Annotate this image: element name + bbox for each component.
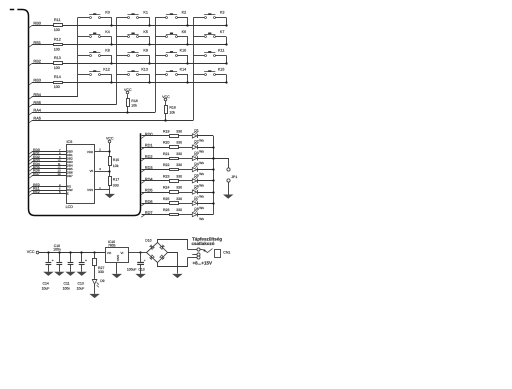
svg-text:DB7: DB7 [67, 174, 73, 178]
wire (AC top) [158, 240, 188, 250]
wire button drop [226, 74, 228, 82]
svg-text:K7: K7 [220, 30, 225, 34]
junction [110, 62, 112, 64]
svg-text:R17: R17 [113, 178, 119, 182]
pin 1 (VSS) [95, 186, 110, 190]
junction [110, 24, 112, 26]
svg-text:Ws: Ws [199, 183, 204, 187]
svg-text:Ws: Ws [199, 161, 204, 165]
pushbutton K0 [78, 11, 112, 19]
capacitor C11 100n [68, 252, 74, 272]
wire button drop [226, 17, 228, 25]
svg-text:R25: R25 [163, 197, 169, 201]
svg-text:D1: D1 [194, 128, 198, 132]
LED D2 Ws [192, 140, 204, 154]
svg-text:D3: D3 [194, 151, 198, 155]
wire button drop [226, 37, 228, 45]
net RE2 (LCD control wire) [29, 190, 66, 196]
svg-text:RA5: RA5 [33, 116, 41, 121]
junction [110, 81, 112, 83]
wire R18 to RA4 [127, 107, 129, 113]
jumper JP1 [227, 168, 237, 182]
junction [225, 81, 227, 83]
junction [93, 251, 95, 253]
wire [178, 192, 192, 194]
svg-text:330: 330 [176, 163, 182, 167]
supply VCC (for R18) [124, 88, 132, 99]
net RD6 (LCD data wire) [29, 169, 66, 175]
wire column vertical [155, 17, 157, 112]
wire button drop [149, 17, 151, 25]
LED D1 Ws [192, 128, 204, 142]
svg-text:D10: D10 [145, 239, 151, 243]
svg-text:R12: R12 [54, 37, 61, 41]
wire [197, 203, 213, 205]
net RD1 (LCD data wire) [29, 151, 66, 157]
net RD6 (LED wire) [141, 199, 169, 206]
wire button drop [111, 37, 113, 45]
svg-text:100n: 100n [53, 248, 61, 252]
svg-text:csatlakozó: csatlakozó [192, 241, 215, 246]
LED D3 Ws [192, 151, 204, 165]
svg-text:10uF: 10uF [77, 287, 85, 291]
ground [43, 272, 53, 276]
pushbutton K1 [117, 11, 150, 19]
svg-text:D8: D8 [194, 207, 198, 211]
label C13 10uF [77, 281, 85, 290]
svg-text:100uF: 100uF [127, 268, 137, 272]
wire [94, 284, 96, 294]
wire button drop [111, 55, 113, 63]
resistor R21 330 [163, 152, 182, 160]
wire R16 to RA5 [165, 113, 167, 120]
svg-text:D7: D7 [194, 196, 198, 200]
resistor R13 100 [54, 56, 63, 70]
junction [148, 81, 150, 83]
junction [148, 43, 150, 45]
resistor R22 330 [163, 163, 182, 170]
wire [178, 214, 192, 216]
junction [148, 62, 150, 64]
wire to jumper [214, 159, 229, 168]
svg-text:VO: VO [107, 251, 112, 255]
svg-text:V0: V0 [90, 169, 94, 173]
net RB2 (row wire) [29, 59, 54, 66]
svg-text:330: 330 [176, 174, 182, 178]
svg-text:330: 330 [176, 186, 182, 190]
svg-text:10k: 10k [169, 110, 175, 114]
svg-text:R18: R18 [131, 99, 137, 103]
pushbutton K9 [117, 49, 150, 57]
resistor R26 330 [163, 208, 182, 215]
svg-text:+: + [52, 259, 54, 263]
ground (bridge) [172, 274, 182, 278]
wire button drop [149, 37, 151, 45]
svg-text:Ws: Ws [199, 195, 204, 199]
junction [148, 24, 150, 26]
svg-text:R23: R23 [163, 174, 169, 178]
pushbutton K11 [193, 49, 226, 57]
svg-text:D2: D2 [194, 140, 198, 144]
ground (LCD) [105, 194, 115, 198]
resistor R19 330 [163, 130, 182, 138]
wire row [63, 44, 227, 46]
pushbutton K6 [155, 30, 188, 38]
wire button drop [149, 74, 151, 82]
ground (JP1) [223, 195, 233, 199]
supply VCC (for R16) [162, 95, 170, 106]
svg-text:10k: 10k [113, 164, 119, 168]
svg-text:RB2: RB2 [33, 59, 41, 64]
wire button drop [226, 55, 228, 63]
capacitor C10 100n [56, 252, 62, 272]
bridge rectifier D10 [145, 239, 167, 263]
ground [77, 272, 87, 276]
svg-text:K4: K4 [105, 30, 110, 34]
wire [178, 169, 192, 171]
svg-text:E: E [67, 191, 69, 195]
junction [225, 24, 227, 26]
svg-text:RD4: RD4 [145, 176, 154, 181]
svg-text:100: 100 [54, 28, 60, 32]
svg-text:VCC: VCC [106, 136, 114, 140]
net RB4 (column wire) [29, 92, 78, 99]
svg-text:+: + [144, 259, 146, 263]
svg-text:R16: R16 [169, 106, 175, 110]
svg-text:RB1: RB1 [33, 40, 41, 45]
capacitor C10 100n label [53, 244, 61, 252]
wire button drop [187, 17, 189, 25]
wire (7805 gnd) [116, 263, 118, 274]
wire button drop [187, 74, 189, 82]
svg-text:K14: K14 [180, 68, 187, 72]
net RD4 (LED wire) [141, 176, 169, 183]
pushbutton K10 [155, 49, 188, 57]
svg-text:K2: K2 [182, 11, 187, 15]
junction [164, 119, 166, 121]
net RD5 (LED wire) [141, 188, 169, 195]
svg-text:K12: K12 [103, 68, 110, 72]
net RD2 (LED wire) [141, 154, 169, 161]
svg-text:+8...+15V: +8...+15V [193, 260, 213, 265]
svg-text:CN1: CN1 [223, 251, 230, 255]
svg-text:RD5: RD5 [145, 188, 153, 193]
svg-text:R22: R22 [163, 163, 169, 167]
junction [186, 81, 188, 83]
svg-text:10k: 10k [131, 104, 137, 108]
LED D6 Ws [192, 185, 204, 199]
svg-text:RB0: RB0 [33, 21, 41, 26]
svg-text:R21: R21 [163, 152, 169, 156]
supply VCC (power rail) [27, 250, 106, 254]
svg-text:VCC: VCC [27, 250, 35, 254]
junction [212, 191, 214, 193]
capacitor C14 10uF [46, 252, 54, 272]
LCD module IC8 [66, 140, 95, 209]
junction [212, 168, 214, 170]
resistor R15 10k [109, 157, 120, 169]
ground (7805) [112, 274, 122, 278]
pushbutton K8 [78, 49, 112, 57]
svg-text:C13: C13 [138, 268, 144, 272]
svg-text:330: 330 [176, 197, 182, 201]
net RD4 (LCD data wire) [29, 162, 66, 168]
wire row [63, 25, 227, 27]
svg-text:R11: R11 [54, 18, 61, 22]
junction [186, 24, 188, 26]
wire button drop [187, 37, 189, 45]
wire row [63, 82, 227, 84]
resistor R23 330 [163, 174, 182, 182]
wire button drop [149, 55, 151, 63]
wire button drop [111, 17, 113, 25]
wire (7805 out) [128, 252, 141, 254]
svg-text:K8: K8 [105, 49, 110, 53]
svg-text:VSS: VSS [87, 188, 93, 192]
wire [197, 214, 213, 216]
wire column vertical [193, 17, 195, 120]
wire [197, 147, 213, 149]
svg-text:RA4: RA4 [33, 108, 41, 113]
svg-text:Ws: Ws [199, 206, 204, 210]
svg-text:K6: K6 [182, 30, 187, 34]
svg-text:RD7: RD7 [145, 210, 153, 215]
net RD1 (LED wire) [141, 143, 169, 150]
svg-text:330: 330 [176, 152, 182, 156]
net RE1 (LCD control wire) [29, 187, 66, 193]
wire button drop [187, 55, 189, 63]
junction [186, 43, 188, 45]
resistor R27 330 [93, 252, 105, 274]
net RD5 (LCD data wire) [29, 165, 66, 171]
svg-text:K13: K13 [141, 68, 148, 72]
wire [178, 180, 192, 182]
junction [186, 62, 188, 64]
pushbutton K14 [155, 68, 188, 76]
net RB3 (row wire) [29, 78, 54, 85]
LED D5 Ws [192, 173, 204, 187]
svg-text:RD6: RD6 [145, 199, 153, 204]
svg-text:RB3: RB3 [33, 78, 41, 83]
svg-text:R15: R15 [113, 158, 119, 162]
resistor R18 10k [127, 99, 138, 108]
pushbutton K5 [117, 30, 150, 38]
junction [212, 179, 214, 181]
pushbutton K3 [193, 11, 226, 19]
net RD0 (LCD data wire) [29, 148, 66, 154]
junction [212, 157, 214, 159]
svg-text:K1: K1 [143, 11, 148, 15]
wire [178, 203, 192, 205]
pushbutton K15 [193, 68, 226, 76]
junction [212, 157, 214, 159]
junction [80, 251, 82, 253]
svg-text:IC8: IC8 [67, 140, 73, 144]
svg-text:7805: 7805 [108, 244, 116, 248]
junction [139, 251, 141, 253]
svg-text:14: 14 [57, 172, 61, 176]
wire [178, 158, 192, 160]
svg-text:RD7: RD7 [33, 172, 40, 176]
net RA5 (column wire) [29, 116, 194, 123]
svg-text:LCD: LCD [66, 205, 74, 209]
regulator IC10 7805 [106, 240, 129, 262]
ground [54, 272, 64, 276]
wire [197, 180, 213, 182]
supply VCC (LCD) [106, 136, 114, 157]
capacitor C13 100uF [127, 252, 146, 274]
svg-text:330: 330 [176, 130, 182, 134]
LED D7 Ws [192, 196, 204, 210]
resistor R25 330 [163, 197, 182, 205]
svg-text:+: + [85, 259, 87, 263]
net RB1 (row wire) [29, 40, 54, 47]
wire column vertical [116, 17, 118, 104]
wire [109, 185, 111, 194]
capacitor C13 10uF [79, 252, 87, 272]
svg-text:R26: R26 [163, 208, 169, 212]
pin 3 (V0) [95, 167, 110, 171]
svg-text:RB4: RB4 [33, 92, 41, 97]
svg-text:K9: K9 [143, 49, 148, 53]
wire [178, 135, 192, 137]
svg-text:RD0: RD0 [145, 132, 154, 137]
svg-text:D5: D5 [194, 173, 198, 177]
wire [197, 135, 213, 137]
svg-text:Ws: Ws [199, 150, 204, 154]
resistor R20 330 [163, 141, 182, 149]
svg-text:VDD: VDD [87, 150, 94, 154]
junction [126, 111, 128, 113]
wire column vertical [77, 17, 79, 96]
svg-text:330: 330 [176, 208, 182, 212]
svg-text:C13: C13 [78, 281, 84, 285]
module border (thick rounded outline, dashed at top-left) [10, 10, 141, 216]
junction [225, 43, 227, 45]
wire button drop [111, 74, 113, 82]
ground [65, 272, 75, 276]
svg-text:K0: K0 [105, 11, 110, 15]
wire [197, 158, 213, 160]
svg-text:C11: C11 [64, 281, 70, 285]
junction [58, 251, 60, 253]
svg-text:K15: K15 [218, 68, 225, 72]
pin 2 (VDD) [95, 148, 110, 152]
wire (AC bottom) [158, 258, 188, 267]
svg-text:330: 330 [98, 270, 104, 274]
pushbutton K4 [78, 30, 112, 38]
net RD3 (LED wire) [141, 165, 169, 172]
wire LED common vertical [213, 136, 215, 215]
junction [212, 146, 214, 148]
svg-text:R13: R13 [54, 56, 61, 60]
LED D9 [92, 279, 105, 288]
label C11 100n [63, 281, 71, 290]
wire [109, 165, 111, 177]
junction [212, 202, 214, 204]
svg-text:JP1: JP1 [231, 175, 237, 179]
resistor R17 330 [109, 177, 120, 188]
wire [228, 182, 230, 195]
resistor R12 100 [54, 37, 63, 51]
resistor R24 330 [163, 186, 182, 194]
junction [108, 150, 110, 152]
wire [141, 252, 147, 254]
svg-text:C14: C14 [43, 281, 49, 285]
wire [197, 169, 213, 171]
svg-text:D9: D9 [100, 279, 104, 283]
svg-text:RE2: RE2 [33, 190, 40, 194]
wire [178, 147, 192, 149]
pushbutton K7 [193, 30, 226, 38]
svg-text:100: 100 [54, 66, 60, 70]
svg-text:Ws: Ws [199, 172, 204, 176]
ground (D9) [89, 294, 99, 298]
svg-text:100: 100 [54, 85, 60, 89]
junction [47, 251, 49, 253]
label Tapfeszultseg csatlakozo [192, 236, 223, 246]
wire [94, 266, 96, 279]
net RB0 (row wire) [29, 21, 54, 28]
wire row [63, 63, 227, 65]
resistor R11 100 [54, 18, 63, 32]
svg-text:GND: GND [116, 255, 120, 261]
svg-text:100n: 100n [63, 287, 71, 291]
svg-text:K5: K5 [143, 30, 148, 34]
pushbutton K12 [78, 68, 112, 76]
svg-text:RD1: RD1 [145, 143, 153, 148]
svg-text:R14: R14 [54, 75, 61, 79]
net RD2 (LCD data wire) [29, 155, 66, 161]
svg-text:Ws: Ws [199, 138, 204, 142]
LED D4 Ws [192, 162, 204, 176]
LED D8 Ws [192, 207, 204, 221]
net RA4 (column wire) [29, 108, 155, 115]
svg-text:10uF: 10uF [42, 287, 50, 291]
wire (bridge - to gnd) [168, 253, 178, 274]
svg-text:K10: K10 [180, 49, 187, 53]
svg-text:RD3: RD3 [145, 165, 153, 170]
net RD7 (LED wire) [141, 210, 169, 217]
pushbutton K2 [155, 11, 188, 19]
junction [225, 62, 227, 64]
net RB5 (column wire) [29, 100, 117, 107]
svg-text:330: 330 [176, 141, 182, 145]
svg-text:100: 100 [54, 47, 60, 51]
svg-text:RB5: RB5 [33, 100, 41, 105]
wire [197, 192, 213, 194]
svg-text:K3: K3 [220, 11, 225, 15]
net RE0 (LCD control wire) [29, 183, 66, 189]
svg-text:Ws: Ws [199, 217, 204, 221]
pushbutton K13 [117, 68, 150, 76]
connector CN1 (power jack) [188, 248, 231, 259]
svg-text:330: 330 [113, 184, 119, 188]
svg-text:D6: D6 [194, 185, 198, 189]
resistor R14 100 [54, 75, 63, 89]
svg-text:K11: K11 [218, 49, 224, 53]
ground (C13) [135, 274, 145, 278]
junction [69, 251, 71, 253]
svg-text:D4: D4 [194, 162, 198, 166]
net RD0 (LED wire) [141, 132, 169, 139]
svg-text:R24: R24 [163, 186, 169, 190]
junction [108, 170, 110, 172]
svg-text:R20: R20 [163, 141, 169, 145]
svg-text:R19: R19 [163, 130, 169, 134]
net RD7 (LCD data wire) [29, 172, 66, 178]
resistor R16 10k [165, 106, 176, 115]
